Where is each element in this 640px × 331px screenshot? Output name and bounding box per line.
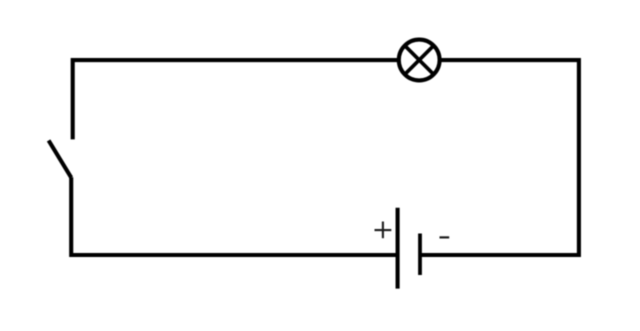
wire: lamp to top-right corner, down right side, to battery negative plate [421, 60, 579, 255]
battery BT1 negative (short) plate [418, 234, 422, 276]
switch S1 (open blade) [49, 140, 72, 177]
battery label - [440, 236, 450, 238]
battery BT1 positive (long) plate [396, 208, 400, 289]
wire: battery positive plate to bottom-left corner and up to switch [71, 177, 396, 255]
wire: top-left segment (switch top terminal up, then across to lamp) [73, 60, 398, 139]
battery label + [375, 222, 392, 239]
lamp L1 (circle with X) [399, 40, 440, 81]
